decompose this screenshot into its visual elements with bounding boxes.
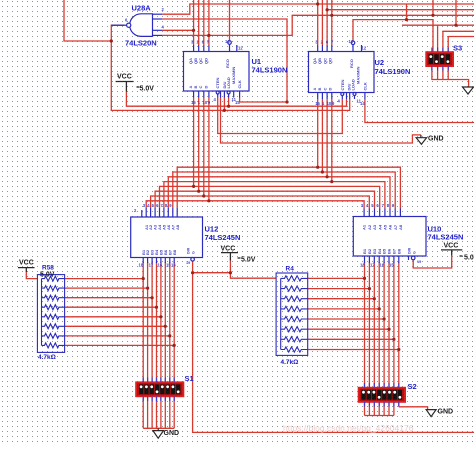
wire S2 to gnd [399,407,428,410]
wire R58 row5 [65,316,161,318]
wire VCC-R58 link [26,272,37,279]
wire top-left from edge [64,0,111,41]
wire V1 link [406,4,408,20]
svg-text:VCC: VCC [444,243,459,250]
wire U10 B6 drop [388,262,390,416]
nand gate U28A body [130,14,153,37]
wire U12 B6 drop [164,262,166,428]
svg-text:A8: A8 [398,224,403,230]
switch S2 [359,388,406,402]
svg-text:14: 14 [360,101,365,106]
wire U10 B8 drop [398,262,400,407]
U10 bottom stubs [364,256,366,263]
svg-text:B8: B8 [172,249,177,255]
svg-text:5.0V: 5.0V [40,272,55,279]
U12 U10 pin numbers [134,203,421,268]
svg-text:5.0V: 5.0V [140,86,155,93]
bus h3 [168,177,390,209]
svg-text:U2: U2 [375,58,385,67]
wire VCC mid stem red [229,261,231,273]
nand bubble [127,23,131,27]
wire U1 QA vertical [193,0,195,45]
resistor R58-3 [42,295,65,300]
svg-text:13: 13 [225,39,230,44]
wire R58 row2 [65,287,148,289]
svg-text:RCO: RCO [349,59,354,68]
switch S3 [426,52,453,66]
wire U1 C drop [203,98,205,197]
svg-text:CTEN: CTEN [340,80,345,91]
wire G to VCC R4 [193,273,277,279]
svg-text:74LS190N: 74LS190N [252,66,288,75]
svg-text:DIR: DIR [187,247,191,254]
wire R4 row6 [308,328,389,330]
svg-text:74LS245N: 74LS245N [428,233,464,242]
wire L1 clk link [240,98,287,103]
U1 top stubs [193,45,195,52]
power symbol VCC top-left [116,82,140,92]
U2 top stubs [317,45,319,52]
wire H5 S3 pin2 [402,24,474,26]
svg-text:G: G [192,251,196,254]
wire U1 QC vertical [203,0,205,45]
wire gate pin3 [162,29,193,31]
wire U10 B7 drop [393,262,395,416]
svg-text:R4: R4 [286,266,295,273]
wire R4 row4 [308,308,380,310]
power symbol VCC mid [221,253,241,261]
wire gate pin2 down [162,19,287,102]
resistor R58-1 [42,276,65,281]
U2 74LS190N body [309,41,375,99]
ground right mid [416,135,426,144]
svg-text:18: 18 [360,263,365,268]
wire U1 RCO vertical [229,0,231,41]
resistor pack R58 [37,275,64,353]
svg-text:S1: S1 [185,374,194,383]
ground S1 [153,428,164,438]
wire B path U2 rco to S3 pin1 [353,20,433,52]
pin numbers small [125,7,367,106]
wire U12 B8 drop [173,262,175,428]
svg-text:S3: S3 [453,44,462,53]
resistor R58-7 [42,333,65,338]
wire R4 row3 [308,298,375,300]
svg-text:VCC: VCC [117,74,132,81]
power symbol VCC R58 [18,268,35,272]
U12 bottom stubs [142,258,144,264]
wire U1 B drop [198,98,200,192]
wire U10 G vcc link [413,256,452,268]
svg-text:B8: B8 [396,248,401,254]
chip U2 internal labels [312,58,367,91]
wire U10 B3 drop [373,262,375,416]
svg-text:17: 17 [149,263,154,268]
wire U2 D drop [331,99,333,182]
ground S3 [463,87,474,94]
wire U2 A drop [317,99,319,167]
svg-text:16: 16 [158,263,163,268]
svg-text:5.0V: 5.0V [241,257,256,264]
svg-text:CLK: CLK [237,80,242,88]
svg-text:RCO: RCO [225,59,230,68]
U12 74LS245N body [131,208,203,263]
wire gate pin4 jog [162,15,474,35]
wire R4 row8 [308,349,399,351]
bus h1 [177,167,400,208]
svg-text:G: G [413,251,417,254]
svg-text:QD: QD [203,58,208,64]
wire U2 v2 [321,0,323,45]
wire V433 top [432,0,434,15]
wire S3 gnd rail [432,66,469,87]
U1 74LS190N body [184,41,250,98]
svg-text:4.7kΩ: 4.7kΩ [38,354,56,361]
wire U2 v4 [331,0,333,45]
chip U12 internal labels [141,224,196,255]
wire U12 B3 drop [151,262,153,428]
ground S2 [426,410,436,417]
chip U1 internal labels [188,58,242,89]
wire S1 gnd rail [143,427,174,429]
svg-text:D: D [327,88,332,91]
bus h5 [160,186,380,208]
wire gate pin1 to U2v1 [162,4,317,14]
wire U12 B7 drop [169,262,171,428]
wire top H1 right [318,3,474,5]
resistor R4-3 [281,296,308,301]
wire U1 A drop [193,98,195,187]
svg-text:GND: GND [428,136,444,143]
resistor R4-6 [281,327,308,332]
svg-text:VCC: VCC [19,260,34,267]
svg-text:13: 13 [349,39,354,44]
wire U10 B4 drop [378,262,380,416]
U12 top stubs [141,210,143,217]
wire U2 v3 [326,0,328,45]
switch pin stubs blue [143,48,448,407]
bus h4 [164,182,385,209]
wire U2 B drop [321,99,323,172]
bus h7 [151,196,370,209]
wire U2 clk L6 [365,99,474,123]
svg-text:S2: S2 [408,382,417,391]
wire V456 [455,0,457,25]
wire U12 B5 drop [160,262,162,428]
wire U10 B2 drop [368,262,370,416]
resistor R58-8 [42,343,65,348]
resistor R58-2 [42,286,65,291]
wire R58 row3 [65,297,153,299]
svg-text:QD: QD [327,58,332,64]
resistor pack R4 [276,273,308,355]
wire R4 row5 [308,318,384,320]
svg-text:15: 15 [389,263,394,268]
svg-text:A8: A8 [175,224,180,230]
U1 bottom stubs [193,91,195,98]
svg-text:D: D [203,86,208,89]
wire U1 QD vertical [208,0,210,45]
switch S1 [136,382,183,396]
wire R58 row1 [65,278,144,280]
resistor R58-4 [42,305,65,310]
wire R4 row7 [308,338,394,340]
wire U1 LOAD T [228,98,230,107]
wire U12 B1 drop [142,262,144,428]
wire U1 DU T [223,98,225,111]
wire L5 gnd net [221,98,421,144]
nand input stubs [153,13,163,15]
svg-text:19: 19 [186,261,190,265]
svg-text:U28A: U28A [132,4,152,13]
svg-text:12: 12 [238,46,243,51]
resistor R4-4 [281,306,308,311]
wire H7 S3 pin4 [448,37,474,53]
bus h8 [146,201,364,209]
wire R58 row8 [65,344,175,346]
wire R58 row7 [65,335,170,337]
svg-text:74LS245N: 74LS245N [205,233,241,242]
svg-text:5.0V: 5.0V [464,255,474,262]
svg-text:LOAD: LOAD [351,79,356,90]
wire R4 row2 [308,288,370,290]
svg-text:16: 16 [380,263,385,268]
wire U1 D drop [208,98,210,201]
wire U2 v1 [317,0,319,45]
svg-text:LOAD: LOAD [226,77,231,88]
svg-text:19: 19 [417,260,421,264]
U2 bottom stubs [317,93,319,100]
resistor R4-5 [281,316,308,321]
resistor R58-5 [42,314,65,319]
wire U10 B5 drop [383,262,385,416]
wire U1 QB vertical [198,0,200,45]
wire L4 cten [218,98,343,134]
wire U12 B2 drop [147,262,149,428]
wire R4 row1 [308,277,365,279]
power symbol VCC right [441,250,463,256]
svg-text:VCC: VCC [221,246,236,253]
bus h6 [155,191,374,208]
wire R58 row6 [65,325,166,327]
svg-text:74LS190N: 74LS190N [375,67,411,76]
svg-text:CLK: CLK [362,82,367,90]
wire U2 C drop [326,99,328,177]
svg-text:https;//blog.csdn.net/qq_42604: https;//blog.csdn.net/qq_42604176 [283,423,414,433]
svg-text:CTEN: CTEN [215,78,220,89]
svg-text:15: 15 [191,100,196,105]
resistor R58-6 [42,324,65,329]
svg-text:GND: GND [438,409,454,416]
wire VCC1 net L2 [126,92,346,107]
U10 top stubs [363,209,365,217]
svg-text:DIR: DIR [408,247,412,254]
svg-text:15: 15 [315,101,320,106]
wire R58 row4 [65,306,157,308]
svg-text:MAX/MIN: MAX/MIN [231,67,236,84]
wire H2 to S3 pin1 [327,9,474,11]
svg-text:14: 14 [235,100,240,105]
resistor R4-1 [281,276,308,281]
chip U10 internal labels [362,224,417,254]
U10 74LS245N body [353,209,426,264]
svg-text:MAX/MIN: MAX/MIN [355,67,360,84]
svg-text:R58: R58 [42,265,54,272]
svg-text:18: 18 [139,263,144,268]
svg-text:74LS20N: 74LS20N [125,39,157,48]
wire U12 B4 drop [156,262,158,428]
svg-text:14: 14 [171,263,176,268]
wire U12 G net [193,261,474,432]
svg-text:4.7kΩ: 4.7kΩ [281,359,299,366]
op-amp gate area [111,14,162,37]
wire U10 B1 drop [364,262,366,416]
resistor R4-2 [281,286,308,291]
wire H6 S3 pin3 [443,31,474,52]
wire S2 gnd rail [365,415,394,417]
bus h2 [173,172,395,209]
resistor R4-8 [281,347,308,352]
nand output stub [111,24,126,26]
wire gate output net [111,25,349,110]
svg-text:GND: GND [164,430,180,437]
svg-text:12: 12 [362,46,367,51]
resistor R4-7 [281,337,308,342]
svg-text:17: 17 [370,263,375,268]
